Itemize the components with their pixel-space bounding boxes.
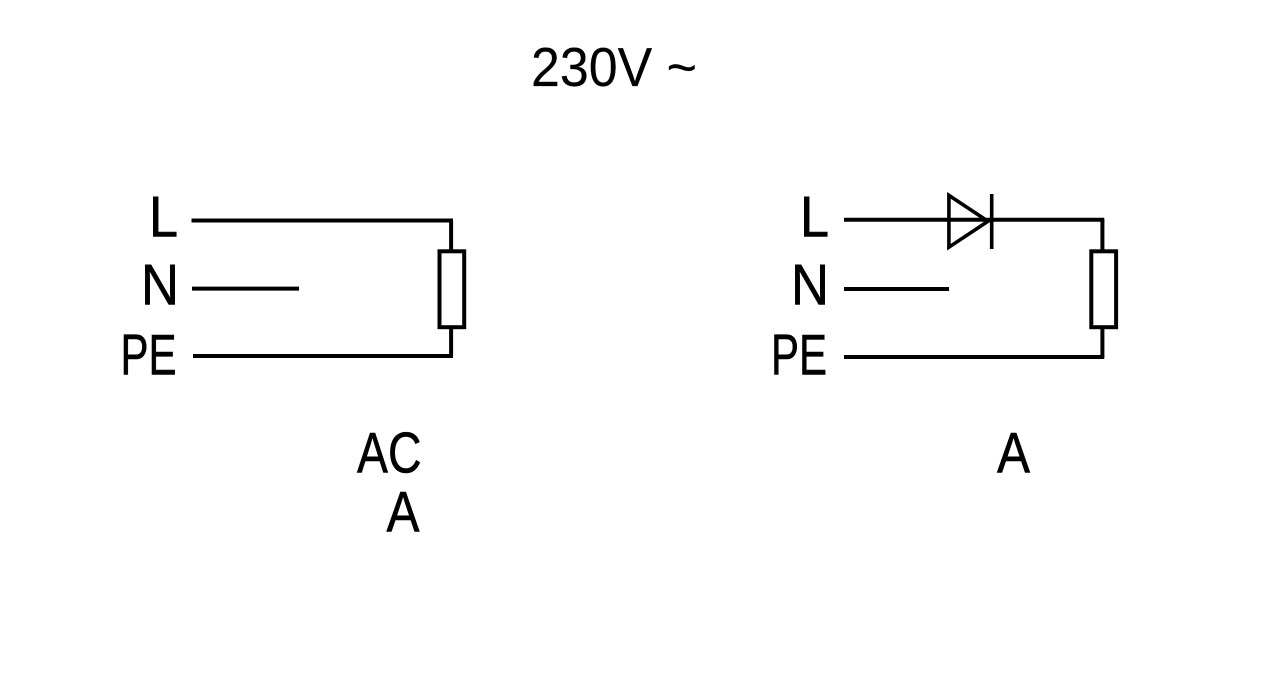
wire L to resistor top (left circuit, corner drop)	[449, 221, 453, 252]
diode V1 cathode bar (right circuit)	[990, 194, 994, 249]
svg-text:PE: PE	[121, 323, 177, 387]
svg-text:A: A	[997, 421, 1031, 485]
wire L to resistor top (right circuit, corner drop)	[1100, 220, 1104, 252]
wire PE (left circuit, horizontal)	[193, 354, 453, 358]
wire L (right circuit, horizontal through diode)	[844, 218, 1104, 222]
diode V1 triangle (anode, right circuit)	[949, 195, 988, 247]
svg-text:L: L	[149, 186, 178, 250]
svg-text:230V ~: 230V ~	[531, 36, 697, 98]
svg-text:N: N	[791, 254, 829, 318]
svg-text:L: L	[800, 186, 829, 250]
wire L (left circuit, horizontal)	[192, 219, 454, 223]
svg-text:AC: AC	[357, 421, 422, 485]
svg-text:A: A	[387, 480, 421, 544]
wire N stub (left circuit)	[192, 287, 299, 291]
wire resistor bottom to PE (left circuit)	[449, 327, 453, 356]
resistor (left circuit)	[440, 251, 465, 327]
svg-text:PE: PE	[771, 323, 827, 387]
svg-text:N: N	[141, 254, 179, 318]
wire N stub (right circuit)	[844, 287, 949, 291]
resistor (right circuit)	[1091, 251, 1116, 327]
wire PE (right circuit, horizontal)	[844, 355, 1104, 359]
wire resistor bottom to PE (right circuit)	[1100, 327, 1104, 357]
